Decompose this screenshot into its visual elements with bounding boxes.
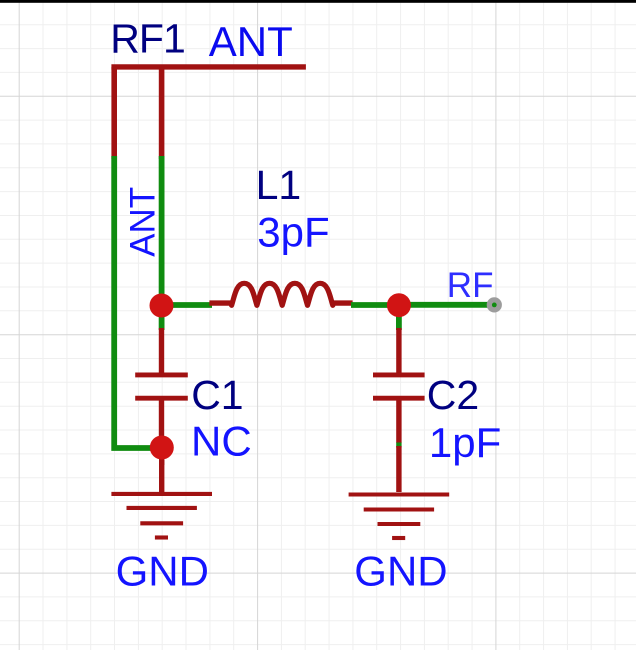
svg-text:3pF: 3pF [257, 209, 329, 256]
svg-text:GND: GND [354, 547, 447, 594]
junction node A [150, 294, 174, 318]
label C1 [191, 372, 243, 418]
svg-text:RF: RF [447, 266, 494, 305]
label RF1 [110, 16, 185, 62]
svg-text:ANT: ANT [209, 18, 293, 65]
wire node A to C1 [159, 308, 165, 330]
antenna RF1 symbol body [111, 64, 306, 69]
antenna RF1 pin ANT [159, 67, 165, 159]
svg-text:ANT: ANT [123, 187, 162, 257]
wire left branch RF1 pin2 to node NC [114, 156, 160, 448]
ground GND left [111, 460, 212, 538]
wire node B to RF endpoint [404, 302, 494, 308]
junction node NC [150, 436, 174, 460]
pin name ANT vertical [123, 187, 162, 257]
unconnected endpoint RF [487, 297, 502, 312]
svg-text:RF1: RF1 [110, 16, 185, 62]
svg-text:1pF: 1pF [429, 419, 501, 466]
capacitor C1 [135, 328, 188, 445]
label ANT part name [209, 18, 293, 65]
label L1 [256, 162, 302, 208]
svg-text:L1: L1 [256, 162, 302, 208]
net label RF [447, 266, 494, 305]
value 3pF [257, 209, 329, 256]
label C2 [427, 372, 479, 418]
wire node A to L1 [167, 302, 212, 308]
label GND left [116, 547, 209, 594]
antenna RF1 pin 2 [111, 67, 117, 159]
net label NC [191, 418, 252, 465]
wire RF1 pin ANT to node A [159, 156, 165, 303]
capacitor C2 [373, 328, 425, 443]
ground GND right [349, 446, 450, 538]
svg-text:GND: GND [116, 547, 209, 594]
svg-text:NC: NC [191, 418, 252, 465]
svg-text:C1: C1 [191, 372, 243, 418]
inductor L1 [209, 283, 352, 305]
wire node B to C2 [396, 308, 402, 330]
value 1pF [429, 419, 501, 466]
wire node NC to ground lead [159, 452, 164, 465]
junction node B [387, 293, 411, 317]
wire C2 to ground pin join [396, 443, 401, 448]
label GND right [354, 547, 447, 594]
wire L1 to node B [351, 302, 394, 308]
svg-text:C2: C2 [427, 372, 479, 418]
